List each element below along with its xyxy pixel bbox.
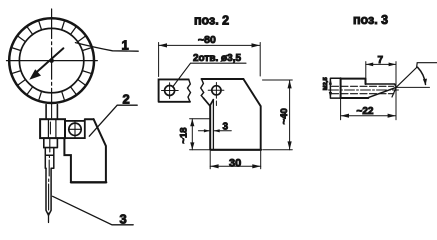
poz2 main hole	[212, 86, 221, 95]
poz3 tip extension line	[395, 62, 397, 120]
label 2	[123, 92, 130, 107]
poz3 dimension 7 extension line	[365, 62, 367, 83]
leader line to label 2	[89, 105, 137, 136]
title poz 2	[194, 14, 229, 28]
poz2 dimension ~80 extension lines	[159, 43, 261, 77]
dial outer circle	[9, 18, 94, 103]
poz2 holes note leader	[173, 63, 246, 87]
poz2 main piece break line	[201, 79, 204, 98]
poz2 dimension 30 line	[210, 165, 261, 167]
poz2 dimension 3 text	[223, 122, 229, 133]
collar below clamp	[44, 138, 58, 148]
dial vertical centerline	[51, 9, 53, 103]
label 3	[120, 211, 127, 226]
svg-text:поз. 3: поз. 3	[353, 13, 388, 27]
poz2 slit right wall	[212, 100, 214, 150]
poz3 M2,5 dimension arrows	[329, 79, 332, 98]
poz2 dimension ~40 extension lines	[263, 80, 293, 150]
needle pivot dot	[49, 58, 54, 63]
title poz 3	[353, 13, 388, 27]
dial tick marks	[11, 20, 92, 101]
leader line to label 3	[53, 196, 134, 225]
poz2 main piece top edge	[202, 78, 244, 80]
poz3 thread dashed lines	[332, 86, 394, 93]
svg-text:~80: ~80	[198, 34, 216, 46]
bracket body outline	[94, 119, 106, 181]
svg-text:поз. 2: поз. 2	[194, 14, 229, 28]
poz3 M2,5 text	[323, 77, 329, 91]
dial horizontal centerline	[7, 60, 98, 62]
svg-text:3: 3	[223, 122, 229, 133]
poz3 angle arc	[418, 67, 426, 84]
svg-text:30: 30	[229, 158, 241, 170]
poz2 dimension ~40 line	[289, 80, 291, 150]
clamp block	[40, 119, 65, 138]
screw head circle	[69, 123, 81, 135]
poz3 body top edge	[341, 79, 366, 84]
indicator neck	[46, 105, 57, 120]
svg-text:3: 3	[120, 211, 127, 226]
svg-text:2отв. ø3,5: 2отв. ø3,5	[193, 53, 241, 64]
svg-text:~40: ~40	[279, 108, 290, 124]
stem centerline	[49, 103, 52, 223]
svg-text:М2,5: М2,5	[323, 77, 329, 91]
poz2 dimension ~18 extension line	[190, 119, 210, 150]
poz2 dimension 30 extension lines	[210, 151, 261, 169]
poz2 left piece outline	[159, 79, 190, 101]
poz3 thread-body boundary	[340, 78, 342, 98]
poz2 dimension ~80 text	[198, 34, 216, 46]
poz2 left hole	[165, 86, 175, 96]
dial inner circle	[19, 28, 83, 92]
svg-text:2: 2	[123, 92, 130, 107]
poz2 main piece right side	[243, 79, 260, 149]
poz2 dimension 3 right arrow and shelf	[214, 130, 232, 132]
svg-text:~22: ~22	[357, 106, 374, 117]
poz3 dimension ~22 text	[357, 106, 374, 117]
poz3 angle arc arrowhead	[423, 79, 427, 86]
poz3 nose taper	[368, 87, 396, 97]
poz2 dimension ~40 arrows	[288, 80, 292, 150]
screw block	[65, 121, 85, 138]
poz3 dimension ~22 arrows	[341, 114, 396, 118]
probe tip centerline	[48, 215, 50, 222]
poz3 thread section outline	[330, 78, 340, 98]
poz2 dimension ~18 line	[191, 119, 193, 150]
poz2 dimension ~40 text	[279, 108, 290, 124]
poz2 left piece break line	[188, 79, 191, 101]
screw head crosshair	[68, 121, 81, 138]
poz3 dimension 7 line	[366, 63, 396, 65]
needle arrowhead	[29, 69, 41, 79]
poz2 holes note text	[193, 53, 241, 64]
poz3 axis centerline	[329, 89, 399, 91]
svg-text:~18: ~18	[178, 127, 189, 143]
poz2 left hole centerlines	[162, 83, 179, 99]
poz2 main piece bottom edge	[211, 149, 261, 151]
svg-text:1: 1	[122, 37, 129, 52]
poz3 dimension 7 arrows	[366, 63, 396, 67]
poz2 slit left wall	[209, 106, 211, 150]
poz2 dimension ~80 arrows	[159, 43, 260, 47]
poz2 dimension ~18 arrows	[190, 119, 194, 150]
svg-text:7: 7	[378, 55, 384, 66]
poz2 dimension ~80 line	[159, 44, 260, 46]
poz3 dimension ~22 line	[341, 115, 396, 117]
poz3 nose top edge	[366, 84, 397, 87]
poz3 angle ray	[392, 63, 437, 97]
bracket left step	[64, 138, 71, 181]
poz3 dimension ~22 extension line	[340, 98, 342, 120]
middle stem	[45, 148, 54, 169]
poz3 dimension 7 text	[378, 55, 384, 66]
poz3 angle horizontal ray	[396, 86, 429, 88]
leader line to label 1	[75, 43, 138, 52]
poz3 body bottom edge	[341, 97, 369, 99]
probe body	[46, 168, 51, 215]
poz2 dimension ~18 text	[178, 127, 189, 143]
label 1	[122, 37, 129, 52]
poz2 dimension 30 text	[229, 158, 241, 170]
bracket body top edge	[85, 118, 94, 120]
bracket bottom edge	[71, 181, 106, 183]
poz2 slot notch	[204, 98, 214, 106]
needle	[34, 48, 63, 74]
stem through clamp	[48, 119, 56, 138]
poz2 dimension 3 left arrow	[198, 130, 209, 132]
poz2 main hole centerlines	[208, 83, 224, 106]
poz2 dimension 30 arrows	[210, 164, 261, 168]
